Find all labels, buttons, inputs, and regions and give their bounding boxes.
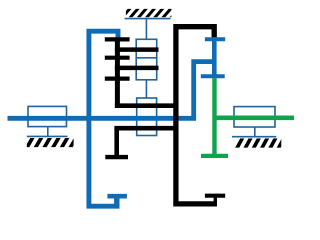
blue left shaft with top bar [89,31,120,206]
sun gear bar low [105,76,130,80]
clutch plate bar upper [115,47,159,52]
blue hook riser [114,196,119,206]
black hook top bar [205,194,225,198]
brake pack outer rectangle (upper clutch) [136,39,157,80]
left ground line [27,135,68,137]
green output axis [215,115,295,120]
stem between packs [145,80,147,98]
ground line top center [125,18,171,20]
spline tick upper [205,37,225,41]
black left drop with foot [114,128,119,155]
brake pack mid division [136,57,157,59]
right ground line [232,136,276,138]
sun gear bar top [105,37,130,41]
green foot bar [201,154,228,158]
blue input shaft: axis, riser and top link [8,62,215,119]
clutch pack lower rectangle [137,98,157,136]
black sun shaft vertical V1 [115,37,120,108]
left bearing stem [47,127,49,137]
black ring shaft V2 with top bar [176,27,217,204]
right bearing rectangle [234,107,275,127]
black upper carrier bar through lower pack [115,103,179,108]
right bearing stem [254,127,256,137]
black left foot bar [105,155,128,159]
left bearing rectangle [28,106,67,126]
black hook riser [214,196,217,204]
black lower carrier bar through lower pack [114,126,178,131]
sun gear bar mid [105,56,130,60]
blue hook top bar [107,194,127,199]
spline tick lower [201,74,225,78]
blue vertical link right [212,37,217,78]
stem from top ground to brake pack [145,19,147,40]
green output shaft vertical [212,78,216,156]
clutch plate bar lower [115,66,159,71]
